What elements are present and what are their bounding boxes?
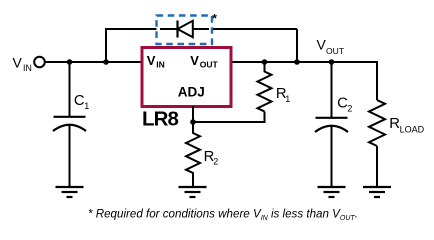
wire diode branch right vertical: [296, 29, 298, 62]
junction ADJ node: [190, 119, 196, 125]
resistor R1: [258, 62, 272, 112]
wire input rail: [45, 61, 142, 63]
svg-text:* Required for conditions wher: * Required for conditions where VIN is l…: [88, 208, 358, 223]
resistor R2: [186, 122, 200, 187]
svg-text:IN: IN: [23, 63, 32, 73]
pin label VOUT: [190, 53, 218, 69]
svg-text:ADJ: ADJ: [178, 85, 205, 100]
pin label VIN: [147, 53, 165, 69]
svg-text:LR8: LR8: [142, 107, 179, 130]
junction C1 tap: [67, 59, 73, 65]
ground for C1: [56, 187, 84, 197]
junction VOUT / C2 tap: [329, 59, 335, 65]
junction diode branch tap: [103, 59, 109, 65]
wire RLOAD branch: [377, 62, 378, 100]
svg-text:R: R: [389, 116, 400, 132]
svg-text:OUT: OUT: [326, 46, 345, 56]
svg-text:V: V: [13, 55, 23, 71]
svg-text:V: V: [317, 37, 327, 53]
ground for RLOAD: [363, 187, 391, 197]
wire ADJ pin: [192, 106, 194, 122]
wire diode branch left vertical: [105, 29, 107, 62]
svg-text:2: 2: [347, 103, 352, 113]
label R2: [204, 149, 219, 167]
svg-text:V: V: [147, 53, 156, 68]
svg-text:*: *: [212, 11, 217, 25]
capacitor C1: [53, 62, 86, 187]
junction diode return tap: [294, 59, 300, 65]
wire RLOAD to ground: [376, 146, 378, 187]
junction R1 tap: [262, 59, 268, 65]
label VOUT (output net): [317, 37, 345, 56]
diode D1 (protection diode, cathode left): [160, 21, 209, 38]
label VIN (input net): [13, 55, 32, 74]
svg-text:OUT: OUT: [200, 59, 219, 69]
ground for R2: [179, 187, 207, 197]
label C1: [74, 93, 89, 111]
capacitor C2: [315, 62, 348, 187]
node VIN input terminal: [34, 57, 45, 68]
svg-text:IN: IN: [156, 59, 165, 69]
regulator U1 LR8 body: [142, 48, 231, 107]
svg-text:1: 1: [285, 94, 290, 104]
label C2: [337, 96, 352, 114]
label R1: [276, 86, 290, 104]
svg-text:V: V: [190, 53, 199, 68]
resistor RLOAD: [369, 100, 385, 146]
ground for C2: [318, 187, 346, 197]
optional diode dashed outline box: [157, 16, 213, 45]
wire R1 bottom to ADJ node: [193, 112, 265, 123]
wire diode horizontal: [105, 28, 297, 30]
label RLOAD: [389, 116, 424, 135]
svg-text:2: 2: [213, 157, 218, 167]
wire output rail: [233, 61, 379, 63]
svg-text:LOAD: LOAD: [400, 125, 425, 135]
svg-text:1: 1: [84, 101, 89, 111]
